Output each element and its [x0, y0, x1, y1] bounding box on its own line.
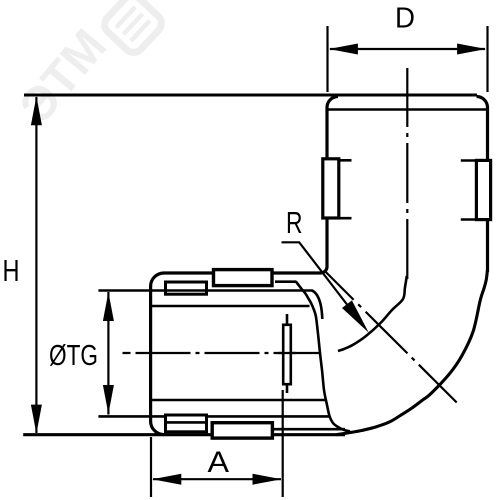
svg-text:ØTG: ØTG — [49, 340, 98, 372]
lower cover edge line — [274, 428, 345, 431]
vertical socket left edge — [325, 108, 328, 267]
A extension lines — [151, 390, 283, 497]
A dimension line — [153, 478, 281, 480]
svg-text:A: A — [208, 446, 230, 479]
line over bottom small tab — [164, 421, 208, 424]
vertical socket cap rounded corners — [327, 97, 488, 108]
A right arrowhead — [253, 474, 282, 485]
A left arrowhead — [152, 474, 181, 485]
concave corner between sockets — [321, 266, 327, 273]
vertical pipe centerline — [406, 68, 408, 283]
inner line A after big tab — [275, 280, 297, 283]
OTG top arrowhead — [103, 292, 114, 321]
horizontal socket outer top line — [164, 271, 322, 274]
bottom small tab — [166, 415, 207, 432]
horizontal centerline over seam — [278, 352, 296, 354]
OTG bottom arrowhead — [103, 385, 114, 414]
horizontal pipe centerline — [123, 352, 320, 354]
left latch rectangle — [323, 159, 339, 218]
right latch ticks — [461, 161, 475, 220]
45deg bend centerline — [325, 272, 456, 403]
outer silhouette bottom line — [23, 433, 345, 436]
D extension lines — [328, 26, 488, 92]
H dimension line — [35, 97, 37, 433]
D left arrowhead — [329, 44, 358, 55]
vertical socket cap inner line — [329, 108, 487, 111]
top small tab — [166, 282, 207, 294]
inner line 3 bottom — [151, 399, 326, 402]
left latch ticks — [340, 160, 352, 218]
R leader line — [282, 242, 363, 324]
vertical socket cap top line (H top reference) — [24, 94, 477, 97]
top big tab — [214, 270, 273, 286]
seam rectangle — [283, 325, 291, 384]
horizontal socket left edge with rounded corners — [151, 273, 164, 435]
bend inner radius arc (R) — [338, 276, 407, 351]
outer bend arc — [336, 271, 487, 435]
R leader arrowhead — [342, 300, 369, 332]
seam center line — [286, 314, 289, 393]
OTG dimension line — [107, 292, 109, 415]
bend transition curve C1 — [296, 282, 350, 432]
inner line 3 top — [151, 305, 310, 308]
svg-text:R: R — [286, 205, 303, 240]
svg-text:H: H — [3, 253, 20, 288]
H top arrowhead — [31, 96, 42, 125]
right latch rectangle — [476, 160, 490, 219]
inner line 2 top (OTG top reference) — [98, 291, 322, 320]
D right arrowhead — [457, 44, 486, 55]
H bottom arrowhead — [31, 405, 42, 434]
bottom big tab — [212, 423, 272, 438]
watermark ETM logo — [10, 0, 166, 133]
vertical socket right edge — [486, 108, 489, 273]
inner line 2 bottom (OTG bottom reference) — [98, 415, 329, 418]
line2 over small tab — [164, 289, 208, 292]
D dimension line — [330, 48, 485, 50]
svg-text:D: D — [395, 3, 415, 35]
